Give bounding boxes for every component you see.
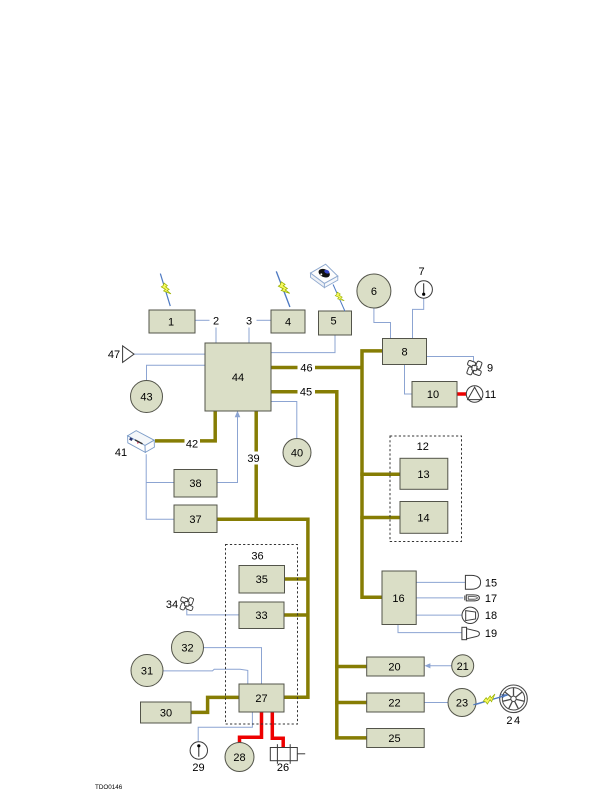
svg-text:22: 22 [388,698,400,710]
box 30 [141,702,192,723]
svg-text:34: 34 [166,599,178,611]
svg-text:36: 36 [251,551,263,563]
bus branch to box22 [335,701,367,705]
sensor circle 31 [131,655,163,687]
svg-text:TDO0146: TDO0146 [95,784,123,791]
wire node 2 to U44 [215,328,217,344]
svg-text:13: 13 [417,469,429,481]
label bg 46 [298,361,316,374]
box 33 [239,602,284,629]
svg-text:27: 27 [255,693,267,705]
svg-text:43: 43 [140,392,152,404]
svg-text:14: 14 [417,512,429,524]
wireless link 23 to wheel 24 [476,694,507,705]
svg-text:30: 30 [160,708,172,720]
box 1 [149,310,195,333]
svg-text:6: 6 [371,286,377,298]
sensor circle 6 [357,274,391,308]
box 10 [412,382,457,408]
label bg 42 [185,437,201,450]
wire sensor 43 to U44 [147,365,206,380]
wire box5 to U44 [271,335,335,352]
wire box38 to U44 arrow [217,411,240,483]
svg-text:40: 40 [291,448,303,460]
box 22 [367,693,425,712]
box 14 [400,502,448,534]
svg-text:32: 32 [181,643,193,655]
box 5 [319,311,352,335]
sensor circle 28 [225,743,254,772]
svg-text:16: 16 [392,593,404,605]
radio module 41 [128,431,155,453]
wire node 3 to U44 [248,328,250,344]
box 4 [271,310,305,333]
svg-text:46: 46 [300,363,312,375]
svg-text:31: 31 [141,666,153,678]
box 35 [239,566,285,594]
box U44 [205,343,271,411]
wire sensor 21 to box20 arrow [424,663,451,668]
bus stub box33 [284,613,308,617]
bus 39 U44 down [254,412,258,520]
headlamp 18 [462,607,478,623]
svg-text:10: 10 [427,389,439,401]
bus I main vertical to box8 and box16 [362,351,382,597]
svg-text:1: 1 [168,317,174,329]
sensor circle 21 [452,655,474,677]
sensor circle 40 [283,439,311,467]
svg-text:26: 26 [277,762,289,774]
wire U44 to sensor 40 [271,402,297,439]
svg-text:9: 9 [487,363,493,375]
box 13 [400,458,448,489]
box 8 [383,339,427,365]
wire antenna 47 to U44 [134,353,205,355]
svg-text:5: 5 [330,316,336,328]
svg-text:3: 3 [246,316,252,328]
label bg 45 [298,385,316,398]
svg-text:8: 8 [401,347,407,359]
svg-text:18: 18 [485,610,497,622]
svg-text:20: 20 [388,662,400,674]
svg-text:29: 29 [192,762,204,774]
svg-text:2: 2 [213,316,219,328]
sensor circle 32 [172,632,204,664]
bus 42 module41 to U44 [155,412,215,441]
bus branch to box14 [360,516,401,520]
dashed group 12 [390,436,462,542]
svg-text:39: 39 [247,453,259,465]
wire box16 to lamp 17 [416,597,463,599]
svg-text:15: 15 [485,577,497,589]
horn 15 [465,575,480,589]
svg-text:4: 4 [285,317,291,329]
wireless bolt above box1 [157,272,174,307]
svg-text:47: 47 [108,349,120,361]
bus branch to box20 [335,665,367,669]
svg-text:23: 23 [456,698,468,710]
wire sensor 6 to box8 [374,308,391,338]
svg-text:12: 12 [417,441,429,453]
remote transmitter icon above box5 [311,264,338,287]
box 38 [174,470,217,498]
box 27 [239,684,284,712]
wire box8 to box10 [405,365,412,394]
wire node 3 to box4 [257,319,272,321]
fan 34 [178,595,196,613]
wireless bolt above box4 [273,270,294,308]
wire box16 to lamp 18 [416,614,462,616]
bus 46 from U44 [271,366,362,370]
wire sensor 7 to box8 [413,298,424,338]
wireless bolt at wheel 24 [472,691,508,708]
svg-text:33: 33 [255,610,267,622]
box 37 [174,505,217,533]
svg-text:24: 24 [506,715,521,727]
antenna triangle 47 [123,346,134,363]
bus stub box35 [284,577,308,581]
wire box16 to horn 15 [416,581,465,583]
box 16 [382,571,416,625]
box 20 [367,657,425,676]
bus box37 right vertical to box27 [217,519,308,697]
bulb 19 [462,627,480,639]
wireless bolt above box5 [331,283,349,312]
svg-text:7: 7 [418,266,424,278]
svg-text:17: 17 [485,593,497,605]
dashed group 36 [226,545,298,725]
sensor circle 23 [448,689,476,717]
red hose box10 to pump 11 [457,392,467,396]
red hose box27 to sensor 28 [240,712,262,743]
wire box8 to fan 9 [427,357,474,362]
svg-text:38: 38 [189,478,201,490]
red hose box27 to valve 26 [272,712,283,748]
bus branch to box13 [360,472,401,476]
pump 11 [466,386,483,403]
wire sensor 31 to box27 [163,669,248,684]
svg-text:35: 35 [256,574,268,586]
svg-text:28: 28 [233,752,245,764]
bus box30 to box27 [191,697,239,712]
wire fan 34 to box33 [187,610,239,615]
svg-text:21: 21 [457,661,469,673]
temperature sensor 7 [415,281,432,298]
fan 9 [464,358,484,378]
wire box22 to sensor 23 [424,702,448,704]
wire box1 to node 2 [195,319,210,321]
svg-text:37: 37 [189,514,201,526]
svg-text:44: 44 [232,372,244,384]
wire box27 to gauge 29 [198,712,252,742]
bus 45 from U44 down to box25 [271,392,367,738]
wire module 41 to boxes 38 37 [146,454,174,519]
svg-text:42: 42 [186,438,198,450]
bulb 17 [465,595,480,601]
wire box16 to lamp 19 [398,625,462,633]
sensor circle 43 [131,381,163,413]
svg-text:45: 45 [300,387,312,399]
svg-text:11: 11 [485,389,496,401]
label bg 39 [247,452,262,465]
svg-text:41: 41 [115,447,127,459]
wheel 24 [500,685,528,713]
wire sensor 32 to box27 [204,648,262,684]
box 25 [367,729,425,748]
valve 26 [270,744,305,764]
gauge sensor 29 [190,742,207,759]
svg-text:25: 25 [388,733,400,745]
svg-text:19: 19 [485,628,497,640]
